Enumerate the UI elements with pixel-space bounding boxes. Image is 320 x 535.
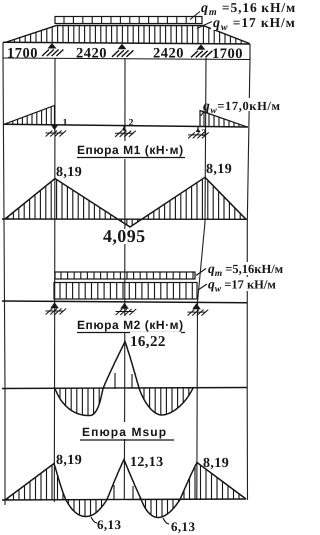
svg-text:2420: 2420: [76, 46, 107, 62]
triangular load on left cantilever: [4, 106, 55, 125]
value 8,19 (M1 left): [56, 165, 82, 180]
svg-text:8,19: 8,19: [56, 165, 82, 180]
moment diagram M2: [2, 342, 247, 416]
svg-text:1700: 1700: [212, 46, 243, 62]
svg-text:2420: 2420: [153, 46, 184, 62]
svg-text:8,19: 8,19: [206, 162, 232, 177]
svg-text:2: 2: [129, 118, 134, 129]
svg-text:16,22: 16,22: [130, 334, 166, 350]
label q_m = 5,16 kN/m: [190, 0, 296, 20]
grid line support 3: [197, 58, 206, 500]
load q_m strip (case 3): [55, 272, 195, 279]
dimension 2420 (left): [76, 46, 107, 62]
value 6,13 (right span) with pointer: [163, 518, 195, 534]
label q_m = 5,16 kN/m (case 3): [196, 261, 297, 279]
svg-text:6,13: 6,13: [171, 519, 195, 534]
grid line left edge: [3, 58, 5, 505]
triangular load on right cantilever: [200, 111, 247, 127]
load q_w strip (case 3): [54, 283, 197, 300]
dimension 1700 (right): [212, 46, 243, 62]
value 8,19 (Msup left): [56, 453, 82, 468]
svg-text:Епюра Мsup: Епюра Мsup: [82, 425, 167, 439]
beam line (load case 2): [3, 124, 248, 127]
support 3 (case 3): [188, 303, 209, 315]
label q_w = 17 kN/m (case 3): [198, 277, 294, 295]
label q_w = 17 kN/m: [197, 15, 296, 33]
svg-text:1: 1: [63, 118, 68, 129]
support 1 (pin) with label 1: [46, 118, 68, 137]
value 8,19 (Msup right): [203, 456, 229, 471]
label q_w = 17,0 kN/m (case 2): [201, 98, 297, 116]
value 12,13 (Msup mid): [130, 455, 164, 470]
load q_m strip (top): [55, 17, 202, 24]
dimension 2420 (right): [153, 46, 184, 62]
title Epyura M1 (kN*m): [75, 141, 187, 159]
beam line (load case 1): [3, 42, 250, 44]
dimension 1700 (left): [7, 46, 38, 62]
title Epyura Msup: [79, 422, 175, 440]
moment diagram Msup: [2, 460, 246, 518]
support hatch on dim line (support 2): [112, 44, 133, 57]
grid line support 2: [123, 58, 126, 500]
svg-text:8,19: 8,19: [56, 453, 82, 468]
title Epyura M2 (kN*m): [75, 316, 187, 333]
moment diagram M1: [2, 177, 247, 227]
grid line right edge: [247, 58, 250, 500]
svg-text:4,095: 4,095: [103, 226, 146, 246]
support 1 (case 3): [46, 302, 67, 314]
support hatch on dim line (support 1): [42, 43, 63, 56]
support 2 (case 3): [116, 303, 137, 315]
value 6,13 (left span) with pointer: [91, 517, 121, 532]
beam line (load case 3): [2, 301, 247, 303]
dimension box bottom line: [3, 42, 250, 59]
svg-text:3: 3: [202, 128, 207, 139]
support hatch on dim line (support 3): [191, 44, 212, 57]
svg-text:Епюра М2 (кН·м): Епюра М2 (кН·м): [77, 318, 184, 332]
support 3 (pin) with label 3: [188, 127, 209, 139]
svg-text:Епюра М1 (кН·м): Епюра М1 (кН·м): [77, 143, 184, 157]
value 4,095 (M1 mid): [102, 226, 158, 246]
svg-text:1700: 1700: [7, 46, 38, 62]
support 2 (pin) with label 2: [115, 118, 136, 137]
value 8,19 (M1 right): [206, 162, 232, 177]
grid line support 1: [53, 58, 56, 502]
load q_w trapezoidal strip: [5, 26, 250, 44]
svg-text:12,13: 12,13: [130, 455, 164, 470]
svg-text:6,13: 6,13: [97, 517, 121, 532]
svg-text:8,19: 8,19: [203, 456, 229, 471]
value 16,22 (M2 peak): [130, 332, 181, 350]
